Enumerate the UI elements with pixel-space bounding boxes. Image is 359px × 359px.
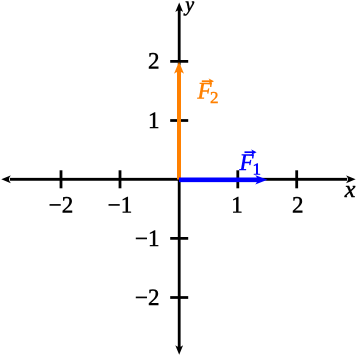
svg-text:−2: −2 [49,193,73,218]
x-axis [1,175,355,183]
svg-text:1: 1 [148,108,160,133]
svg-text:2: 2 [148,49,160,74]
svg-text:1: 1 [253,159,262,178]
y-axis [175,3,183,355]
tick y=-2 [170,296,188,299]
label F1 (blue vector) [239,149,262,178]
tick x=-1 [119,170,122,188]
svg-text:2: 2 [292,193,304,218]
tick y=1 [170,119,188,122]
vector F2 (orange, origin to (0,2)) [174,62,184,180]
tick x=2 [295,170,298,188]
label F2 (orange vector) [197,78,219,107]
vector F1 (blue, origin to (1.5,0)) [179,175,268,184]
svg-text:−2: −2 [135,285,159,310]
svg-text:1: 1 [231,193,243,218]
tick y=-1 [170,237,188,240]
svg-text:−1: −1 [108,193,132,218]
tick x=-2 [60,170,63,188]
tick y=2 [170,60,188,63]
tick x=1 [236,170,239,188]
svg-text:2: 2 [210,88,219,107]
svg-text:x: x [344,177,356,203]
svg-text:y: y [183,0,194,16]
svg-text:−1: −1 [135,226,159,251]
